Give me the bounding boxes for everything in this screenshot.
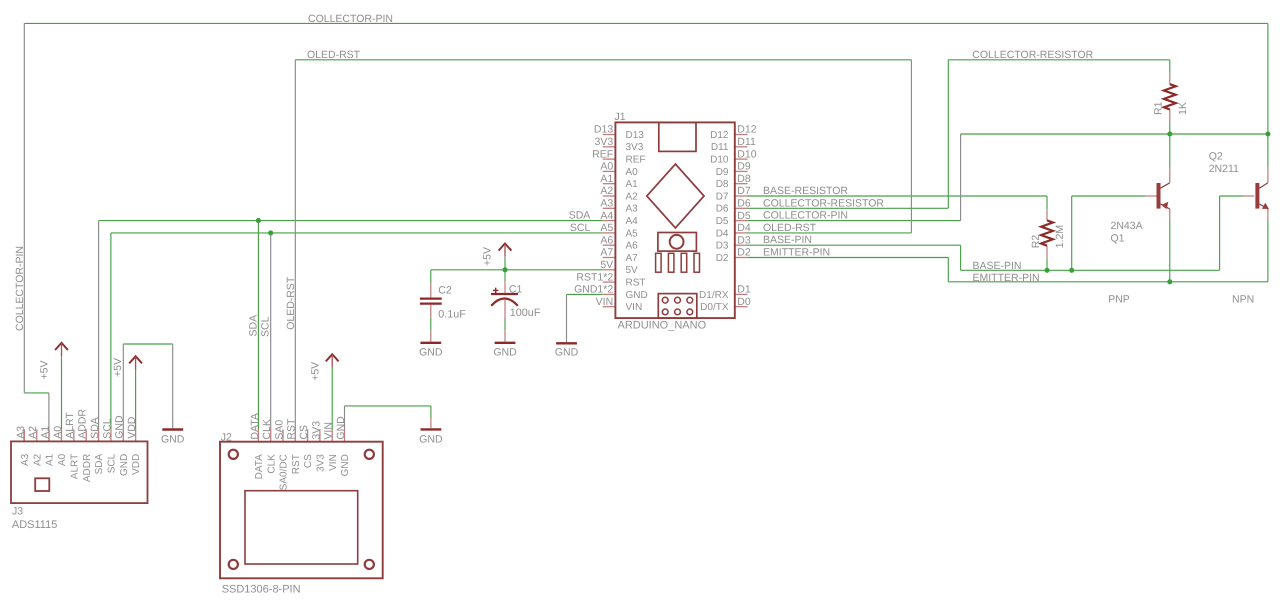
svg-text:A0: A0 [600,161,613,173]
svg-text:VIN: VIN [328,454,339,471]
svg-text:D11: D11 [737,136,756,148]
svg-text:1.2M: 1.2M [1054,225,1066,248]
svg-text:SDA: SDA [569,210,591,222]
svg-text:COLLECTOR-RESISTOR: COLLECTOR-RESISTOR [972,49,1093,61]
svg-text:BASE-RESISTOR: BASE-RESISTOR [763,185,848,197]
svg-text:CLK: CLK [266,454,277,474]
svg-text:D5: D5 [737,210,751,222]
svg-text:SDA: SDA [247,315,259,337]
svg-text:CS: CS [303,454,314,468]
svg-text:J3: J3 [12,506,23,518]
svg-text:+5V: +5V [309,362,321,381]
svg-text:3V3: 3V3 [316,454,327,472]
svg-text:RST: RST [291,454,302,474]
svg-text:VIN: VIN [596,296,614,308]
svg-text:SDA: SDA [89,417,101,439]
svg-text:0.1uF: 0.1uF [438,309,466,321]
svg-text:R2: R2 [1030,235,1042,249]
svg-text:C2: C2 [438,285,452,297]
svg-text:A2: A2 [600,185,613,197]
svg-text:CLK: CLK [261,419,273,439]
svg-text:3V3: 3V3 [626,142,644,153]
svg-text:D8: D8 [737,173,751,185]
svg-text:3V3: 3V3 [595,136,614,148]
svg-text:D3: D3 [716,241,729,252]
svg-text:GND: GND [419,434,443,446]
svg-text:A1: A1 [40,426,52,439]
svg-text:SCL: SCL [101,418,113,439]
svg-text:REF: REF [626,155,646,166]
svg-text:PNP: PNP [1108,294,1130,306]
svg-text:A4: A4 [600,210,613,222]
svg-text:Q1: Q1 [1111,233,1125,245]
svg-text:SSD1306-8-PIN: SSD1306-8-PIN [222,583,301,595]
svg-text:5V: 5V [626,265,639,276]
svg-text:J1: J1 [615,111,626,123]
svg-text:D2: D2 [737,247,751,259]
svg-text:VIN: VIN [323,422,335,440]
svg-text:RST: RST [286,418,298,440]
svg-text:A2: A2 [27,426,39,439]
svg-text:RST: RST [626,278,646,289]
svg-text:ALRT: ALRT [69,454,80,479]
svg-text:D10: D10 [737,148,756,160]
svg-text:SCL: SCL [107,453,118,473]
svg-text:C1: C1 [509,284,523,296]
svg-text:GND: GND [626,290,648,301]
svg-text:D4: D4 [716,228,729,239]
svg-text:OLED-RST: OLED-RST [307,49,361,61]
svg-text:A1: A1 [45,453,56,466]
svg-text:GND: GND [114,415,126,439]
svg-text:D9: D9 [737,161,751,173]
svg-text:GND: GND [340,454,351,476]
svg-text:VDD: VDD [126,416,138,439]
svg-text:COLLECTOR-RESISTOR: COLLECTOR-RESISTOR [763,197,884,209]
svg-text:SDA: SDA [94,453,105,474]
svg-text:A7: A7 [600,247,613,259]
svg-text:D2: D2 [716,253,729,264]
svg-text:A6: A6 [626,241,639,252]
svg-text:D13: D13 [594,124,613,136]
svg-text:GND: GND [493,347,517,359]
svg-text:A7: A7 [626,253,639,264]
svg-text:R1: R1 [1153,101,1165,115]
svg-text:COLLECTOR-PIN: COLLECTOR-PIN [14,246,26,331]
svg-text:D12: D12 [737,124,756,136]
svg-text:OLED-RST: OLED-RST [285,276,297,330]
svg-text:A4: A4 [626,216,639,227]
svg-text:D6: D6 [737,198,751,210]
svg-text:A0: A0 [52,426,64,439]
svg-text:OLED-RST: OLED-RST [763,222,817,234]
svg-text:A3: A3 [20,453,31,466]
svg-text:D5: D5 [716,216,729,227]
svg-text:D1: D1 [737,284,751,296]
svg-text:BASE-PIN: BASE-PIN [763,234,812,246]
svg-text:A2: A2 [626,191,639,202]
svg-text:SCL: SCL [260,316,272,337]
svg-text:+5V: +5V [481,247,493,266]
svg-text:2N43A: 2N43A [1111,220,1143,232]
svg-text:D0: D0 [737,296,751,308]
svg-text:ADDR: ADDR [82,454,93,482]
svg-text:100uF: 100uF [510,307,541,319]
svg-text:D8: D8 [716,179,729,190]
svg-text:A0: A0 [57,453,68,466]
svg-text:NPN: NPN [1232,294,1254,306]
svg-text:D11: D11 [711,142,729,153]
svg-text:VIN: VIN [626,302,643,313]
svg-text:A5: A5 [626,228,639,239]
svg-text:RST1*2: RST1*2 [576,271,613,283]
svg-text:REF: REF [592,148,613,160]
svg-text:Q2: Q2 [1209,151,1223,163]
svg-text:A3: A3 [15,426,27,439]
svg-text:A3: A3 [600,198,613,210]
svg-text:SA0: SA0 [273,420,285,440]
svg-text:GND1*2: GND1*2 [574,284,613,296]
svg-text:GND: GND [335,416,347,440]
svg-text:A0: A0 [626,167,639,178]
svg-text:EMITTER-PIN: EMITTER-PIN [763,247,830,259]
svg-text:5V: 5V [600,259,613,271]
svg-text:ALRT: ALRT [64,412,76,439]
svg-text:ADS1115: ADS1115 [12,519,57,531]
svg-text:A5: A5 [600,222,613,234]
svg-text:D0/TX: D0/TX [700,302,729,313]
svg-text:D13: D13 [626,130,645,141]
svg-text:D9: D9 [716,167,729,178]
svg-text:A1: A1 [626,179,639,190]
svg-text:A3: A3 [626,204,639,215]
svg-text:DATA: DATA [249,413,261,439]
svg-text:D7: D7 [716,191,729,202]
svg-text:1K: 1K [1177,102,1189,115]
svg-text:D1/RX: D1/RX [699,290,729,301]
svg-text:D4: D4 [737,222,751,234]
svg-text:A1: A1 [600,173,613,185]
svg-text:GND: GND [419,347,443,359]
svg-text:A2: A2 [32,453,43,466]
svg-text:ARDUINO_NANO: ARDUINO_NANO [618,320,707,332]
svg-text:CS: CS [298,425,310,440]
svg-text:D10: D10 [710,155,729,166]
svg-text:GND: GND [555,346,579,358]
svg-text:D7: D7 [737,185,751,197]
svg-text:D3: D3 [737,234,751,246]
svg-text:2N211: 2N211 [1209,163,1239,175]
svg-text:3V3: 3V3 [310,421,322,440]
svg-text:GND: GND [119,454,130,476]
svg-text:ADDR: ADDR [77,409,89,439]
svg-text:J2: J2 [221,432,232,444]
svg-text:VDD: VDD [131,454,142,475]
svg-text:+5V: +5V [38,361,50,380]
svg-text:GND: GND [161,434,185,446]
svg-text:DATA: DATA [254,454,265,480]
svg-text:SA0/DC: SA0/DC [279,454,290,490]
svg-text:+5V: +5V [112,358,124,377]
svg-text:D12: D12 [710,130,729,141]
svg-text:COLLECTOR-PIN: COLLECTOR-PIN [763,210,848,222]
svg-text:SCL: SCL [570,222,591,234]
svg-text:EMITTER-PIN: EMITTER-PIN [973,272,1040,284]
svg-text:A6: A6 [600,234,613,246]
svg-text:COLLECTOR-PIN: COLLECTOR-PIN [308,13,393,25]
svg-text:BASE-PIN: BASE-PIN [973,260,1022,272]
svg-text:D6: D6 [716,204,729,215]
